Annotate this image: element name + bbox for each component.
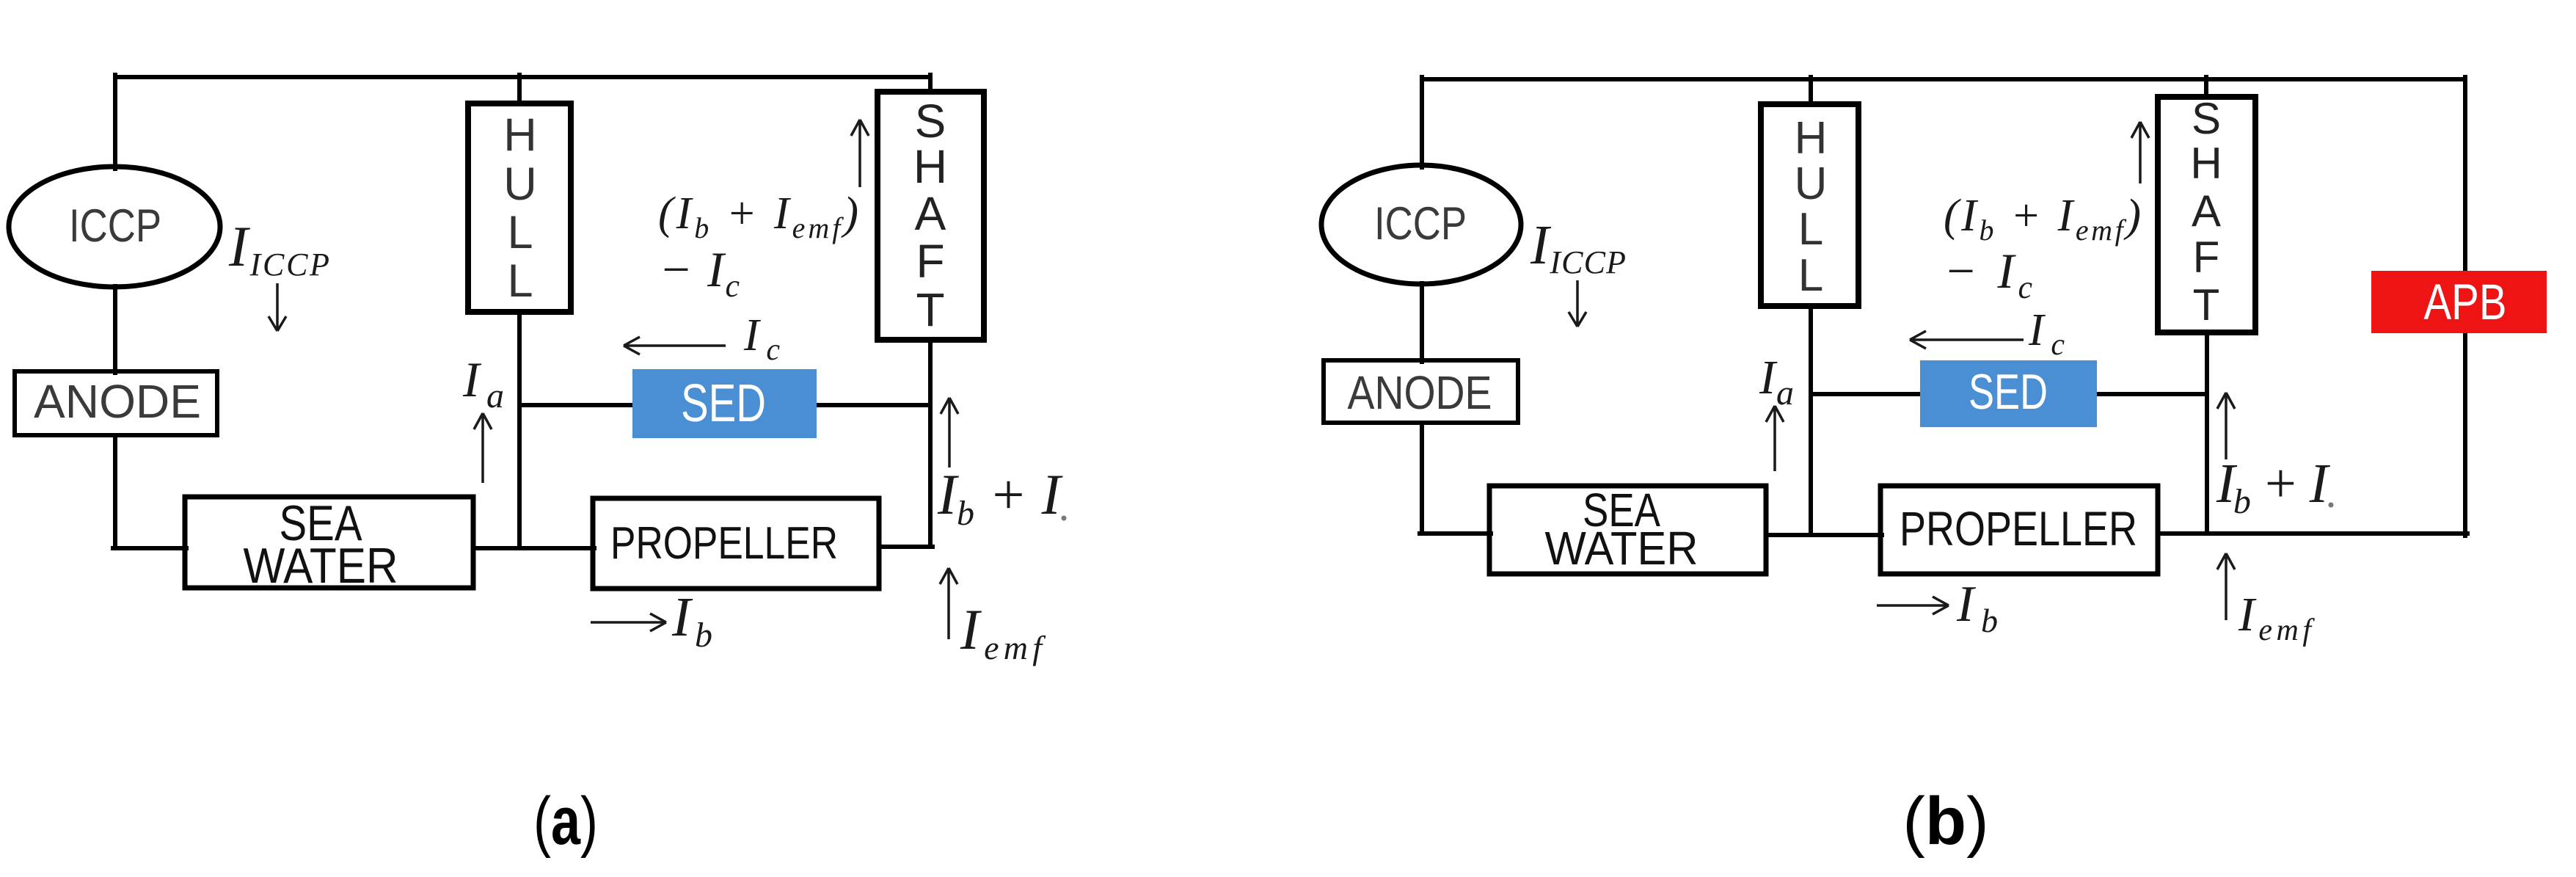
- wire ICCP top lead (b): [1420, 77, 1424, 167]
- wire SHAFT top stub (a): [928, 75, 933, 92]
- wire ICCP to ANODE (a): [113, 286, 117, 373]
- arrow shaft current up (a): [851, 120, 869, 187]
- wire to SEA WATER (a): [113, 546, 186, 550]
- arrow I_c left (a): [624, 337, 726, 354]
- arrow Ib+I up (a): [941, 398, 958, 467]
- arrow I_a up (b): [1766, 406, 1784, 471]
- wire ICCP to ANODE (b): [1420, 283, 1424, 362]
- svg-text:Iemf: Iemf: [2238, 588, 2315, 647]
- block HULL (a): [468, 103, 571, 312]
- block SED (b): [1920, 360, 2097, 427]
- svg-text:L: L: [507, 255, 533, 307]
- svg-text:WATER: WATER: [244, 538, 398, 594]
- svg-text:ICCP: ICCP: [69, 200, 161, 252]
- block PROPELLER (a): [593, 498, 879, 589]
- svg-text:PROPELLER: PROPELLER: [610, 518, 838, 569]
- block SED (a): [632, 369, 817, 438]
- svg-text:(a): (a): [533, 784, 598, 859]
- arrow I_ICCP down (b): [1569, 280, 1586, 327]
- wire APB vertical (b): [2463, 77, 2467, 536]
- svg-text:T: T: [916, 283, 944, 336]
- arrow I_c left (b): [1910, 331, 2024, 349]
- svg-text:A: A: [915, 187, 946, 240]
- block ANODE (a): [15, 371, 217, 435]
- svg-text:Ib: Ib: [1956, 576, 1998, 639]
- block PROPELLER (b): [1880, 486, 2158, 574]
- wire PROPELLER to APB corner (b): [2158, 531, 2467, 536]
- arrow I_b right (b): [1877, 597, 1949, 614]
- svg-text:IICCP: IICCP: [1530, 214, 1626, 280]
- svg-text:IICCP: IICCP: [228, 214, 329, 283]
- svg-text:− Ic: − Ic: [1944, 243, 2032, 305]
- svg-text:ANODE: ANODE: [1348, 366, 1492, 419]
- arrow I_a up (a): [474, 413, 492, 483]
- wire SHAFT bottom lead (b): [2205, 332, 2209, 534]
- source ICCP (b): [1321, 165, 1521, 284]
- wire HULL bottom lead (a): [517, 311, 522, 548]
- wire ANODE down-left (b): [1420, 423, 1424, 534]
- wire HULL to SED (b): [1811, 392, 1922, 396]
- svg-text:Iemf: Iemf: [960, 597, 1046, 666]
- wire top bus (b): [1422, 77, 2465, 81]
- block SEA WATER (b): [1489, 486, 1766, 574]
- svg-text:SED: SED: [1969, 364, 2048, 420]
- svg-text:(b): (b): [1902, 784, 1988, 859]
- svg-text:Ia: Ia: [462, 352, 504, 415]
- wire HULL top stub (b): [1809, 77, 1813, 104]
- svg-text:U: U: [503, 159, 537, 210]
- svg-text:Ib + I: Ib + I: [2216, 453, 2331, 521]
- arrow I_emf up (a): [940, 568, 957, 639]
- source ICCP (a): [9, 167, 220, 287]
- svg-text:F: F: [916, 235, 944, 288]
- svg-text:(Ib + Iemf): (Ib + Iemf): [1944, 191, 2141, 247]
- svg-text:Ib: Ib: [671, 586, 712, 655]
- wire SED to shaft lead (a): [815, 403, 930, 407]
- wire SHAFT top stub (b): [2204, 77, 2208, 97]
- arrow I_b right (a): [591, 614, 666, 631]
- svg-text:A: A: [2192, 186, 2221, 236]
- wire SEA WATER to PROPELLER (a): [473, 546, 594, 550]
- svg-text:T: T: [2193, 280, 2220, 330]
- wire ICCP top lead (a): [113, 75, 117, 169]
- wire HULL top stub (a): [517, 75, 522, 103]
- dot after Ib+I (a): [1062, 516, 1067, 521]
- wire HULL bottom lead (b): [1809, 306, 1813, 535]
- svg-text:SED: SED: [681, 374, 766, 433]
- wire HULL to SED (a): [519, 403, 634, 407]
- svg-text:U: U: [1795, 159, 1828, 209]
- svg-text:APB: APB: [2424, 274, 2507, 330]
- arrow I_ICCP down (a): [269, 283, 286, 331]
- block APB (b): [2371, 271, 2547, 333]
- svg-text:L: L: [1798, 204, 1823, 255]
- svg-text:ICCP: ICCP: [1374, 198, 1467, 250]
- block HULL (b): [1761, 104, 1858, 306]
- svg-text:Ia: Ia: [1759, 351, 1794, 412]
- svg-text:L: L: [1798, 250, 1823, 301]
- arrow I_emf up (b): [2217, 553, 2235, 620]
- svg-text:H: H: [913, 140, 947, 193]
- wire top bus (a): [115, 75, 930, 79]
- dot after Ib+I (b): [2329, 503, 2334, 508]
- svg-text:(Ib + Iemf): (Ib + Iemf): [658, 189, 858, 244]
- svg-text:Ic: Ic: [743, 310, 780, 367]
- svg-text:ANODE: ANODE: [34, 375, 201, 428]
- svg-text:PROPELLER: PROPELLER: [1900, 501, 2137, 556]
- svg-text:H: H: [2190, 139, 2222, 188]
- block SEA WATER (a): [185, 497, 473, 588]
- wire SED to shaft lead (b): [2095, 392, 2207, 396]
- wire to SEA WATER (b): [1420, 531, 1491, 536]
- block SHAFT (a): [877, 92, 984, 340]
- arrow shaft current up (b): [2131, 122, 2149, 183]
- svg-text:S: S: [2192, 94, 2221, 143]
- svg-text:H: H: [1795, 113, 1828, 164]
- svg-text:Ib + I: Ib + I: [937, 462, 1064, 533]
- wire ANODE down-left (a): [113, 435, 117, 548]
- svg-text:H: H: [503, 109, 537, 161]
- svg-text:Ic: Ic: [2028, 305, 2065, 362]
- wire SHAFT bottom lead (a): [928, 339, 933, 547]
- arrow Ib+I up (b): [2217, 393, 2235, 459]
- block SHAFT (b): [2158, 97, 2255, 332]
- svg-text:WATER: WATER: [1545, 522, 1699, 575]
- svg-text:L: L: [507, 207, 533, 258]
- wire PROPELLER to shaft corner (a): [879, 545, 933, 549]
- wire SEA WATER to PROPELLER (b): [1766, 533, 1882, 537]
- svg-text:− Ic: − Ic: [659, 241, 740, 304]
- svg-text:F: F: [2193, 233, 2220, 282]
- block ANODE (b): [1324, 360, 1518, 423]
